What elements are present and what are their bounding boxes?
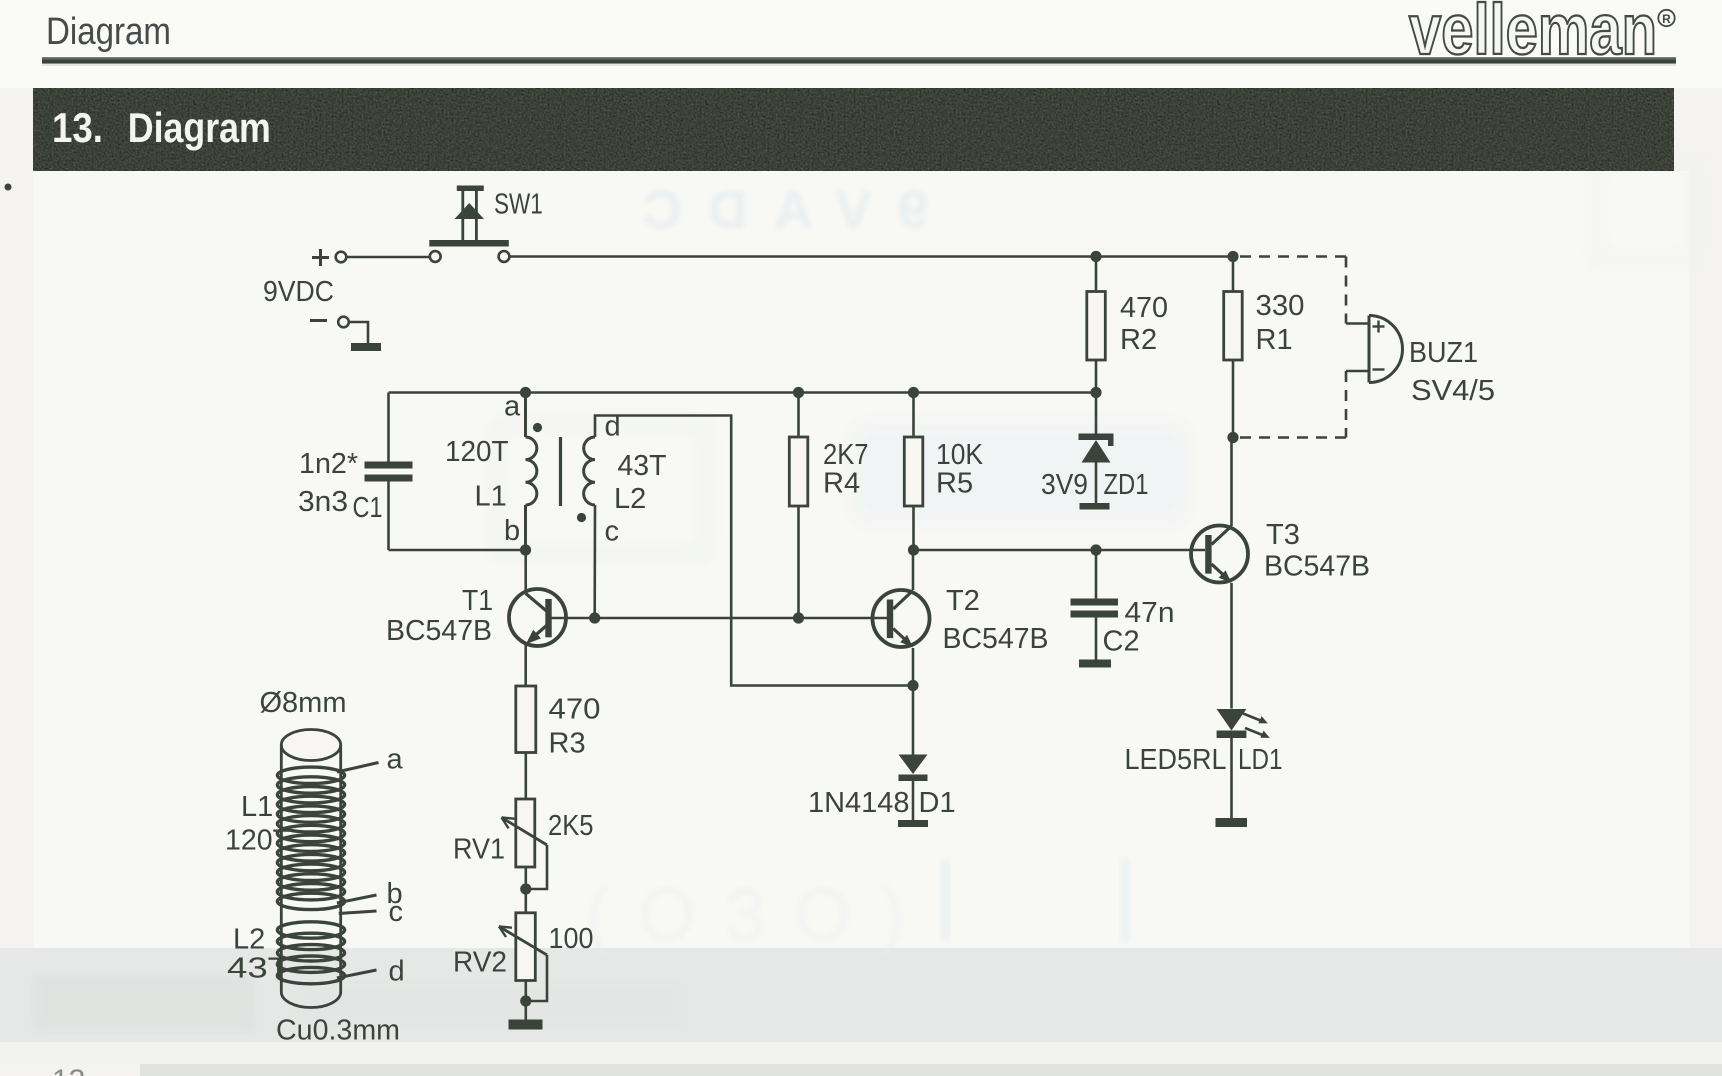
battery minus terminal — [338, 317, 349, 328]
transistor T3 — [1191, 438, 1248, 709]
LED LD1 — [1217, 709, 1270, 818]
svg-text:13: 13 — [52, 1064, 85, 1076]
svg-text:LD1: LD1 — [1238, 744, 1283, 776]
battery plus symbol — [312, 249, 329, 266]
node R5 top — [908, 387, 919, 398]
ground D1 — [898, 820, 928, 827]
svg-text:ZD1: ZD1 — [1104, 469, 1149, 501]
svg-text:C1: C1 — [353, 492, 383, 524]
svg-text:L2: L2 — [233, 924, 265, 956]
wire dashed buzzer bottom — [1233, 436, 1346, 439]
svg-text:Ø8mm: Ø8mm — [260, 687, 347, 719]
tap c lead — [339, 911, 377, 914]
switch SW1 contact right — [499, 251, 510, 262]
inductor L2 — [584, 437, 595, 505]
svg-text:T1: T1 — [462, 585, 493, 617]
capacitor C2 — [1071, 550, 1119, 660]
svg-text:R1: R1 — [1256, 324, 1293, 356]
svg-text:C2: C2 — [1103, 626, 1140, 658]
svg-text:R2: R2 — [1120, 324, 1157, 356]
zener diode ZD1 — [1079, 393, 1114, 504]
svg-text:T2: T2 — [946, 585, 980, 617]
wire L2 c lead — [593, 505, 596, 618]
node ZD1 top — [1090, 387, 1101, 398]
buzzer BUZ1 — [1369, 316, 1402, 383]
coil former cylinder — [281, 730, 340, 1008]
node L1 b — [520, 544, 531, 555]
battery plus terminal — [336, 252, 347, 263]
svg-text:a: a — [387, 744, 404, 776]
svg-text:3n3: 3n3 — [298, 486, 348, 518]
ground ZD1 — [1080, 503, 1110, 510]
svg-text:SW1: SW1 — [494, 189, 543, 221]
svg-text:RV1: RV1 — [453, 834, 505, 866]
node RV1 wiper junction — [520, 883, 531, 894]
svg-text:D1: D1 — [919, 787, 956, 819]
wire buzzer minus stub — [1346, 370, 1369, 373]
svg-text:R4: R4 — [823, 468, 860, 500]
ground LD1 — [1216, 818, 1248, 827]
node junction R1 top — [1227, 251, 1238, 262]
inductor L1 — [526, 393, 537, 551]
wire base rail T1 T2 — [552, 617, 888, 620]
switch SW1 contact left — [430, 251, 441, 262]
svg-text:BC547B: BC547B — [1264, 551, 1370, 583]
node junction R2 top — [1090, 251, 1101, 262]
svg-text:100: 100 — [549, 923, 594, 955]
svg-text:Diagram: Diagram — [128, 104, 271, 151]
transistor T1 — [509, 550, 566, 686]
wire dashed buzzer top — [1240, 255, 1346, 258]
svg-text:c: c — [605, 516, 620, 548]
svg-text:43T: 43T — [618, 450, 667, 482]
svg-text:9VDC: 9VDC — [263, 276, 334, 308]
transformer core — [559, 437, 562, 506]
svg-text:Cu0.3mm: Cu0.3mm — [276, 1015, 400, 1047]
ground C2 — [1079, 660, 1111, 668]
svg-text:Diagram: Diagram — [46, 11, 171, 53]
transistor T2 — [873, 550, 930, 686]
node L2 c junction — [589, 612, 600, 623]
svg-text:330: 330 — [1256, 290, 1305, 322]
svg-text:a: a — [504, 390, 521, 422]
node RV2 wiper junction — [520, 995, 531, 1006]
wire top supply rail — [509, 255, 1233, 258]
wire minus terminal to ground — [349, 322, 368, 343]
svg-text:10K: 10K — [936, 439, 984, 471]
svg-text:R: R — [1662, 12, 1671, 26]
logo registered mark — [1658, 10, 1674, 26]
bottom gray band — [0, 948, 1722, 1042]
wire C1 bottom lead — [387, 482, 390, 551]
ghost show-through artifacts — [35, 160, 1696, 1030]
node C2 top — [1090, 544, 1101, 555]
wire L2 d to T2 emitter junction — [595, 416, 913, 686]
phase dot L1 — [533, 423, 542, 432]
winding L2 turns — [277, 922, 344, 984]
battery minus symbol — [310, 319, 327, 322]
node T2 emitter D1 junction — [907, 680, 918, 691]
svg-text:43T: 43T — [227, 953, 290, 985]
wire C1 to L1 b — [389, 549, 526, 552]
resistor R4 — [789, 393, 808, 619]
tap a lead — [337, 763, 379, 773]
wire plus terminal to SW1 — [347, 256, 430, 259]
svg-text:b: b — [504, 515, 520, 547]
svg-text:R5: R5 — [936, 468, 973, 500]
svg-text:1N4148: 1N4148 — [808, 787, 910, 819]
svg-text:c: c — [389, 896, 404, 928]
resistor R5 — [904, 393, 923, 551]
title bar — [33, 88, 1674, 171]
winding L1 turns — [277, 767, 344, 910]
wire dashed buzzer right bottom — [1345, 371, 1348, 438]
svg-text:BUZ1: BUZ1 — [1409, 337, 1478, 369]
svg-text:13.: 13. — [52, 104, 103, 151]
svg-text:SV4/5: SV4/5 — [1411, 375, 1495, 407]
svg-text:470: 470 — [549, 694, 601, 726]
switch SW1 — [429, 186, 509, 247]
svg-text:120T: 120T — [445, 436, 509, 468]
svg-text:T3: T3 — [1266, 519, 1300, 551]
phase dot L2 — [577, 513, 586, 522]
svg-text:1n2*: 1n2* — [299, 448, 358, 480]
resistor R3 — [516, 686, 536, 799]
resistor R1 — [1224, 257, 1243, 438]
svg-text:2K5: 2K5 — [548, 810, 594, 842]
svg-text:BC547B: BC547B — [386, 615, 492, 647]
svg-text:2K7: 2K7 — [823, 439, 869, 471]
svg-text:47n: 47n — [1125, 597, 1175, 629]
svg-text:120T: 120T — [225, 825, 290, 857]
svg-text:RV2: RV2 — [453, 947, 507, 979]
page speck — [5, 184, 12, 191]
svg-text:d: d — [389, 956, 405, 988]
svg-text:L1: L1 — [475, 481, 507, 513]
svg-text:BC547B: BC547B — [943, 623, 1049, 655]
node R1 bottom T3 collector — [1227, 432, 1238, 443]
wire buzzer plus stub — [1346, 322, 1369, 325]
node R5 bottom T2 collector — [908, 544, 919, 555]
svg-text:velleman: velleman — [1409, 0, 1657, 70]
node R4 top — [793, 387, 804, 398]
diode D1 — [899, 686, 928, 821]
svg-text:L1: L1 — [241, 791, 273, 823]
wire dashed buzzer right top — [1345, 257, 1348, 324]
svg-text:L2: L2 — [614, 483, 646, 515]
svg-text:LED5RL: LED5RL — [1125, 744, 1227, 776]
ground battery — [351, 343, 381, 351]
header rule — [42, 57, 1676, 59]
wire T2 collector to T3 base rail — [914, 549, 1206, 552]
svg-text:470: 470 — [1120, 292, 1168, 324]
wire C1 top lead — [387, 393, 390, 463]
svg-text:R3: R3 — [549, 728, 586, 760]
node R4 bottom — [793, 612, 804, 623]
tap b lead — [337, 895, 377, 903]
resistor R2 — [1087, 257, 1106, 393]
capacitor C1 — [365, 462, 413, 482]
node L1 a — [520, 387, 531, 398]
trimmer RV1 — [502, 799, 548, 913]
wire oscillator rail — [389, 391, 1097, 394]
svg-text:d: d — [605, 411, 621, 443]
ground RV2 — [509, 1020, 543, 1030]
tap d lead — [337, 970, 377, 978]
trimmer RV2 — [499, 913, 547, 1020]
svg-text:3V9: 3V9 — [1041, 469, 1088, 501]
